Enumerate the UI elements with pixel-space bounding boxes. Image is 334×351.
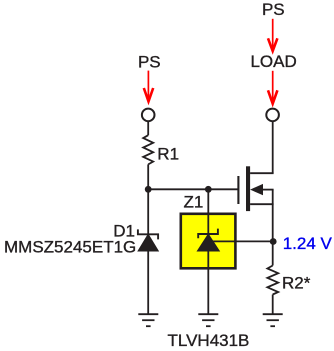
svg-text:R1: R1 xyxy=(157,145,179,164)
shunt regulator Z1 symbol (TLVH431B) xyxy=(198,229,218,239)
wire: R2 to ground xyxy=(272,295,274,315)
wire: Z1 cathode (junction into yellow box) xyxy=(207,189,209,234)
svg-text:LOAD: LOAD xyxy=(250,52,296,71)
ground (under D1) xyxy=(138,314,158,326)
wire: terminal down to MOSFET drain xyxy=(272,122,274,174)
ground (under Z1) xyxy=(198,314,218,326)
zener diode D1 xyxy=(138,229,158,239)
svg-text:TLVH431B: TLVH431B xyxy=(168,331,250,350)
wire: MOSFET source down to 1.24 V node xyxy=(272,190,274,242)
terminal circle (left input) xyxy=(142,109,155,122)
svg-text:MMSZ5245ET1G: MMSZ5245ET1G xyxy=(4,237,136,256)
resistor R1 xyxy=(143,135,153,164)
node 1.24 V (feedback node) xyxy=(270,238,277,245)
wire: Z1 reference to 1.24 V node xyxy=(213,240,273,242)
MOSFET gate bar xyxy=(237,176,239,204)
MOSFET pass transistor: drain stub xyxy=(250,172,274,174)
ground (under R2) xyxy=(263,314,283,326)
MOSFET body arrow xyxy=(250,184,263,195)
MOSFET source stub (bottom) xyxy=(250,203,274,205)
node junction (R1 / D1 / gate wire) xyxy=(145,186,152,193)
svg-text:PS: PS xyxy=(138,52,161,71)
wire: Z1 anode down to ground xyxy=(207,251,209,314)
wire: D1 anode to ground xyxy=(147,251,149,314)
svg-text:Z1: Z1 xyxy=(184,192,204,211)
wire: node down to R2 xyxy=(272,242,274,266)
shunt regulator Z1 body (yellow highlight box) xyxy=(181,214,236,268)
MOSFET source stub (middle, with arrow) xyxy=(263,189,274,191)
red arrow (left PS to input terminal) xyxy=(144,71,153,102)
wire: terminal to R1 xyxy=(147,122,149,136)
red arrow (LOAD to output terminal) xyxy=(268,71,277,104)
MOSFET channel bar xyxy=(246,166,250,211)
wire: horizontal to MOSFET gate xyxy=(148,188,237,190)
red arrow (PS to LOAD) xyxy=(268,19,277,51)
node junction (Z1 cathode tap) xyxy=(205,186,212,193)
terminal circle (right output) xyxy=(266,109,279,122)
svg-text:PS: PS xyxy=(262,0,285,19)
svg-text:R2*: R2* xyxy=(282,274,311,293)
resistor R2* xyxy=(267,266,278,295)
svg-text:1.24 V: 1.24 V xyxy=(283,234,333,253)
wire: R1 down to D1 xyxy=(147,164,149,234)
